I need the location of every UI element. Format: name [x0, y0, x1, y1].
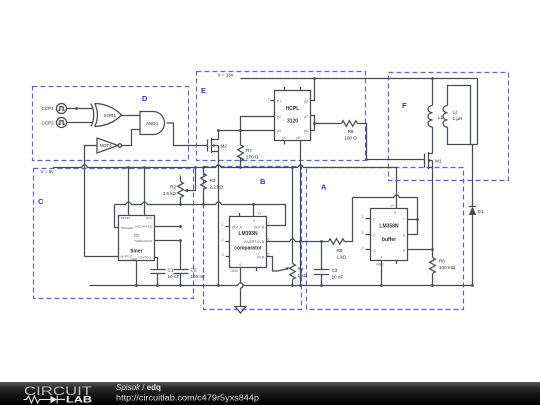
- svg-text:XOR1: XOR1: [104, 113, 117, 118]
- svg-text:INVERT IN B: INVERT IN B: [244, 240, 265, 244]
- svg-text:p2: p2: [277, 115, 281, 119]
- svg-text:6: 6: [268, 237, 270, 241]
- node R3 rail: [202, 166, 205, 169]
- svg-text:CONTROL: CONTROL: [138, 256, 153, 260]
- transistor M1: [425, 152, 442, 169]
- wire M2 source down to ground rail: [218, 146, 220, 286]
- node p5 ground: [299, 284, 302, 287]
- svg-text:7: 7: [403, 217, 405, 221]
- svg-text:1 µH: 1 µH: [453, 116, 463, 121]
- resistor R8: [342, 121, 358, 141]
- node pin7: [416, 218, 419, 221]
- node p8 rail: [313, 77, 316, 80]
- node gate wire: [365, 158, 368, 161]
- svg-text:VCC: VCC: [146, 216, 152, 220]
- svg-text:p7: p7: [304, 115, 308, 119]
- svg-text:D1: D1: [478, 209, 484, 214]
- svg-text:3: 3: [222, 253, 224, 257]
- node C1 ground: [156, 284, 159, 287]
- node R2 wiper rail: [194, 166, 197, 169]
- capacitor C1: [151, 268, 180, 286]
- svg-text:DISCHARGE: DISCHARGE: [135, 225, 152, 229]
- not gate NOT1: [97, 138, 122, 153]
- wire pin7 pin6 bracket: [408, 220, 418, 235]
- svg-text:1: 1: [373, 217, 375, 221]
- resistor R5: [329, 239, 347, 260]
- svg-text:R6: R6: [439, 258, 445, 263]
- wire to M1 gate: [367, 159, 425, 161]
- svg-text:4: 4: [239, 263, 241, 267]
- svg-text:p3: p3: [277, 129, 281, 133]
- node C2 ground: [179, 284, 182, 287]
- node R4 rail: [291, 166, 294, 169]
- wire TRIGGER loop: [115, 205, 119, 228]
- resistor R6: [430, 258, 456, 286]
- wire LM393 V+ up: [253, 205, 255, 217]
- resistor R7: [238, 131, 259, 168]
- wire LM393 pin6 line with hop: [267, 239, 329, 242]
- svg-text:1: 1: [268, 97, 270, 101]
- diode D1: [469, 207, 484, 216]
- svg-text:1: 1: [222, 223, 224, 227]
- svg-text:E: E: [201, 86, 206, 95]
- node p6 p7: [313, 122, 316, 125]
- capacitor C2: [174, 241, 205, 286]
- wire HCPL p2 loop: [241, 117, 275, 131]
- wire LM393 pin5 to R4 wiper: [267, 257, 278, 272]
- svg-text:3: 3: [362, 231, 364, 235]
- wire 555 OUTPUT: [85, 256, 119, 258]
- wire NOT1 out to AND1 input: [122, 130, 140, 146]
- wire R5 to feedback: [345, 198, 353, 242]
- and gate AND1: [140, 112, 165, 135]
- svg-text:R4: R4: [298, 267, 304, 272]
- node RESET rail: [127, 166, 130, 169]
- svg-text:100 nF: 100 nF: [191, 274, 205, 279]
- comparator U3 LM393N: [222, 212, 270, 273]
- node R7 rail: [239, 166, 242, 169]
- wire VCC to rail: [144, 168, 146, 216]
- node L1 rail: [431, 77, 434, 80]
- svg-text:p6: p6: [304, 129, 308, 133]
- dashed box B: [204, 167, 302, 310]
- node R2 bottom: [179, 203, 182, 206]
- svg-text:1 kΩ: 1 kΩ: [298, 273, 308, 278]
- wire D1 to ground rail: [472, 215, 474, 286]
- wire CONTROL to C1: [155, 258, 158, 270]
- timer U2 555: [119, 216, 155, 262]
- svg-text:1 kΩ: 1 kΩ: [337, 255, 347, 260]
- svg-text:M1: M1: [435, 158, 442, 163]
- node pin5 M1 source: [431, 248, 434, 251]
- svg-text:F: F: [402, 101, 407, 110]
- svg-text:3120: 3120: [287, 119, 298, 125]
- wire LM393 GND down with hop over rail: [241, 268, 244, 307]
- dashed box E: [197, 72, 366, 161]
- dashed box F: [389, 73, 509, 181]
- node pin6 C3: [320, 240, 323, 243]
- svg-text:NOT1: NOT1: [100, 143, 113, 148]
- svg-text:AND1: AND1: [146, 121, 159, 126]
- wire 15v rail: [241, 78, 478, 80]
- ground symbol: [235, 307, 246, 314]
- svg-text:8: 8: [395, 211, 397, 215]
- node LM358 gnd: [380, 284, 383, 287]
- svg-text:GND: GND: [376, 263, 384, 267]
- svg-text:http://circuitlab.com/c479r5yx: http://circuitlab.com/c479r5yxs844p: [116, 392, 259, 402]
- potentiometer R2: [163, 168, 196, 205]
- svg-text:R2: R2: [170, 185, 176, 190]
- svg-text:C1: C1: [168, 268, 174, 273]
- node M2 drain: [217, 129, 220, 132]
- wire 5v rail with hops: [53, 165, 397, 209]
- node 555 gnd: [135, 284, 138, 287]
- svg-text:V = 15v: V = 15v: [218, 73, 234, 78]
- svg-text:C: C: [38, 197, 44, 206]
- svg-text:A: A: [321, 183, 327, 192]
- svg-text:2.2 kΩ: 2.2 kΩ: [210, 185, 224, 190]
- svg-text:GND: GND: [231, 269, 239, 273]
- dashed box A: [307, 168, 464, 310]
- svg-text:R3: R3: [210, 178, 216, 183]
- op-amp U1 HCPL 3120: [268, 87, 311, 145]
- svg-text:HCPL: HCPL: [286, 106, 300, 112]
- svg-text:100 Ω: 100 Ω: [344, 136, 357, 141]
- resistor R3: [201, 168, 224, 205]
- wire M2 drain up: [218, 131, 220, 140]
- dashed box C: [34, 169, 194, 299]
- svg-text:R5: R5: [337, 248, 343, 253]
- svg-text:IN B: IN B: [257, 256, 264, 260]
- wire HCPL p8 to rail: [311, 79, 315, 101]
- wire CCP1 to XOR1: [67, 108, 94, 110]
- potentiometer R4: [290, 168, 308, 286]
- svg-text:p5: p5: [297, 136, 301, 140]
- inductor L1: [428, 79, 444, 154]
- node R7 top: [239, 129, 242, 132]
- wire RESET to rail: [128, 168, 130, 216]
- svg-text:10 nF: 10 nF: [168, 274, 180, 279]
- svg-text:3: 3: [373, 249, 375, 253]
- svg-text:555: 555: [134, 233, 140, 237]
- wire ground rail with hop at LM393 gnd: [90, 283, 473, 286]
- wire HCPL p5 down: [300, 141, 302, 286]
- svg-text:R7: R7: [246, 148, 252, 153]
- wire M1 source down to R6: [432, 161, 434, 258]
- svg-text:C2: C2: [191, 268, 197, 273]
- inductor L2 with loop: [443, 86, 471, 145]
- svg-text:LAB: LAB: [66, 395, 92, 405]
- source CCP1: [42, 104, 67, 114]
- svg-text:LM393N: LM393N: [238, 231, 258, 237]
- svg-text:THRESHOLD: THRESHOLD: [134, 239, 152, 243]
- transistor M2: [208, 138, 228, 153]
- node D1 ground: [471, 284, 474, 287]
- svg-text:B: B: [260, 177, 266, 186]
- svg-text:6: 6: [403, 233, 405, 237]
- circuitlab logo: [0, 382, 540, 405]
- svg-text:D: D: [142, 94, 148, 103]
- node M2 source at ground: [217, 284, 220, 287]
- svg-text:5: 5: [268, 252, 270, 256]
- svg-text:8: 8: [253, 219, 255, 223]
- svg-text:M2: M2: [221, 143, 228, 148]
- svg-text:7: 7: [268, 221, 270, 225]
- svg-text:5: 5: [403, 249, 405, 253]
- node LM393 V+: [252, 203, 255, 206]
- node threshold: [179, 239, 182, 242]
- svg-text:3: 3: [362, 246, 364, 250]
- svg-text:Spisok / edq: Spisok / edq: [116, 383, 161, 392]
- svg-text:CCP1: CCP1: [42, 106, 55, 111]
- svg-text:270 Ω: 270 Ω: [246, 155, 259, 160]
- wire R8 to M1 gate: [358, 124, 367, 160]
- svg-text:V+: V+: [258, 212, 262, 216]
- node R4 ground: [291, 284, 294, 287]
- wire LM358 gnd down: [381, 261, 383, 286]
- svg-text:R8: R8: [348, 129, 354, 134]
- wire XOR1 out to AND1: [122, 115, 141, 117]
- wire feedback line with hop: [353, 195, 418, 220]
- svg-text:2: 2: [222, 238, 224, 242]
- svg-text:3.6 kΩ: 3.6 kΩ: [163, 191, 177, 196]
- buffer U4 LM358N: [362, 204, 408, 267]
- svg-text:L2: L2: [453, 110, 459, 115]
- svg-text:100 mΩ: 100 mΩ: [439, 265, 456, 270]
- node R6 ground: [431, 284, 434, 287]
- svg-text:P1: P1: [277, 99, 281, 103]
- wire p6p7 to R8: [315, 123, 342, 125]
- svg-text:2: 2: [373, 233, 375, 237]
- wire M2 drain to HCPL p3: [219, 130, 275, 132]
- node discharge: [179, 225, 182, 228]
- svg-text:C3: C3: [332, 268, 338, 273]
- footer bar: [0, 382, 540, 405]
- wire loop corner to D1: [471, 145, 478, 207]
- svg-text:V = 5v: V = 5v: [41, 169, 55, 174]
- svg-text:p8: p8: [304, 99, 308, 103]
- wire THRESHOLD: [155, 240, 181, 242]
- svg-text:timer: timer: [130, 248, 142, 254]
- wire trigger line with hops: [115, 202, 286, 226]
- svg-text:OUT B: OUT B: [254, 225, 265, 229]
- svg-text:10 nF: 10 nF: [332, 275, 344, 280]
- svg-text:TRIGGER: TRIGGER: [120, 226, 133, 230]
- svg-text:LM358N: LM358N: [379, 224, 399, 230]
- dashed box D: [33, 87, 189, 161]
- node on CCP1 wire: [75, 107, 78, 110]
- svg-text:buffer: buffer: [382, 237, 396, 243]
- wiper arrow R4: [278, 269, 287, 271]
- svg-text:RESET: RESET: [121, 216, 131, 220]
- wire HCPL p7 p6 bracket: [311, 116, 315, 131]
- node C3 ground: [320, 284, 323, 287]
- wire rail right corner down: [477, 79, 479, 145]
- svg-text:comparator: comparator: [234, 246, 262, 252]
- svg-text:V+: V+: [391, 204, 395, 208]
- source CCP2: [42, 118, 67, 128]
- svg-text:p4: p4: [282, 136, 286, 140]
- xor gate XOR1: [91, 104, 122, 127]
- svg-text:OUT A: OUT A: [232, 225, 243, 229]
- node R3 bottom: [202, 203, 205, 206]
- wire LM358 pin5 to M1 source: [408, 249, 433, 251]
- wire CCP2 to XOR1: [67, 122, 94, 124]
- svg-text:4: 4: [381, 256, 383, 260]
- wire DISCHARGE: [155, 226, 181, 228]
- node p5 pin6 line: [299, 240, 302, 243]
- capacitor C3: [314, 242, 343, 286]
- node VCC rail: [143, 166, 146, 169]
- wire 555 GND down: [136, 261, 138, 286]
- svg-text:CCP2: CCP2: [42, 121, 55, 126]
- wire NOT1 input down to 555 OUTPUT: [85, 146, 98, 257]
- wire AND1 out to M2 gate: [167, 123, 208, 146]
- svg-text:2: 2: [362, 215, 364, 219]
